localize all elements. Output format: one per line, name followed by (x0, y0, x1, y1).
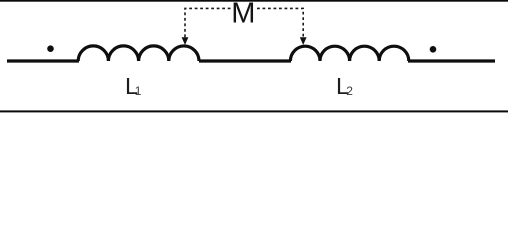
svg-text:2: 2 (346, 84, 353, 98)
svg-text:M: M (231, 0, 255, 30)
svg-text:1: 1 (135, 84, 142, 98)
